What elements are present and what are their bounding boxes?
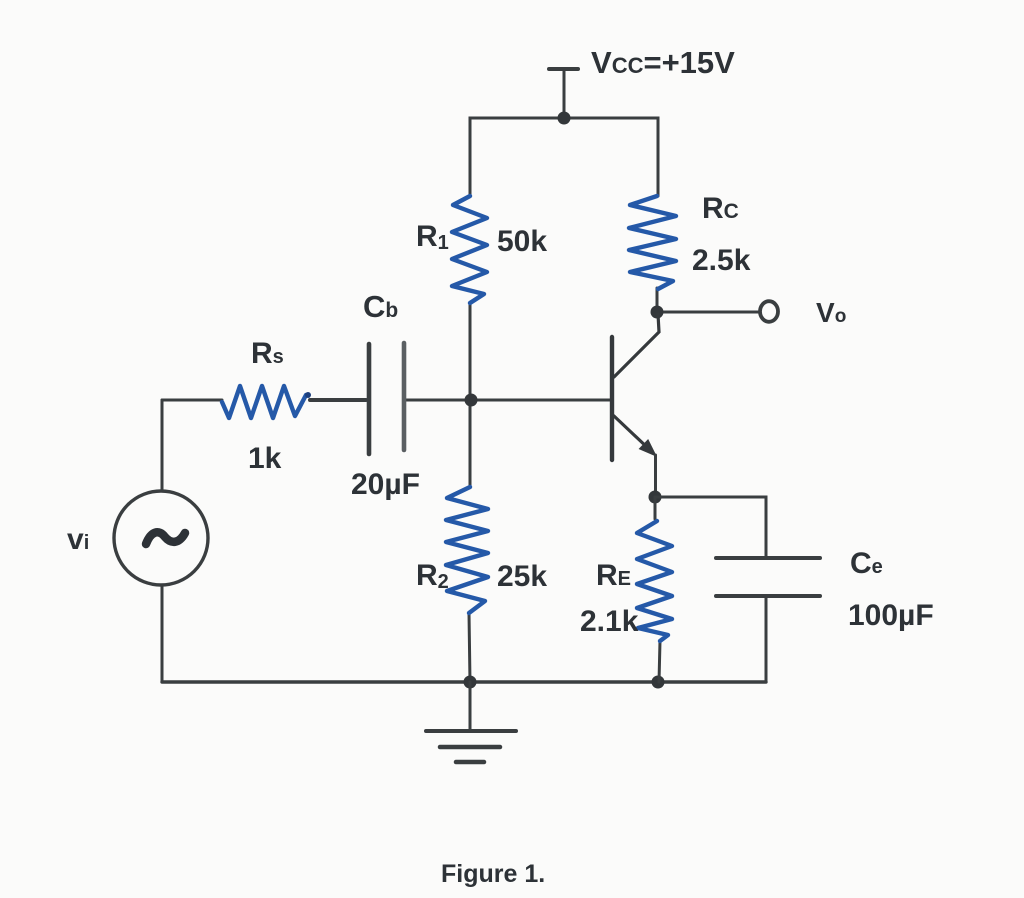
svg-text:vi: vi <box>67 523 89 556</box>
svg-text:2.5k: 2.5k <box>692 244 751 277</box>
svg-text:Ce: Ce <box>850 547 883 580</box>
svg-text:RC: RC <box>702 192 739 225</box>
svg-text:Vo: Vo <box>816 297 846 328</box>
capacitor Cb <box>310 343 404 454</box>
wire collector node to output <box>657 311 760 314</box>
node collector junction <box>651 306 664 319</box>
resistor Rc <box>629 196 676 289</box>
svg-text:100µF: 100µF <box>848 599 934 632</box>
terminal O output <box>760 301 778 322</box>
svg-text:VCC=+15V: VCC=+15V <box>591 45 735 80</box>
wire source left column <box>162 399 222 402</box>
wire R1 bottom to base node <box>469 303 472 400</box>
svg-text:R1: R1 <box>416 220 449 254</box>
node Rs-Cb dot <box>305 392 311 398</box>
wire top rail <box>470 118 658 196</box>
node RE ground junction <box>652 676 665 689</box>
wire emitter node to RE <box>654 497 657 519</box>
source Vi circle <box>114 491 208 585</box>
ground <box>426 682 516 762</box>
svg-text:2.1k: 2.1k <box>580 605 639 638</box>
resistor Rs <box>222 386 306 418</box>
svg-text:1k: 1k <box>248 442 282 475</box>
resistor R1 <box>452 196 487 303</box>
svg-text:50k: 50k <box>497 225 547 258</box>
svg-text:Cb: Cb <box>363 289 398 324</box>
svg-text:R2: R2 <box>416 559 449 593</box>
Vcc power symbol <box>549 69 578 117</box>
svg-text:Figure 1.: Figure 1. <box>441 860 545 888</box>
svg-text:RE: RE <box>596 559 631 592</box>
wire bottom rail <box>162 680 766 683</box>
transistor Q1 <box>612 314 659 460</box>
wire emitter down <box>654 455 657 497</box>
wire RE bottom to rail <box>659 641 660 682</box>
wire R2 bottom to ground rail <box>469 613 470 682</box>
wire base horizontal <box>405 399 610 402</box>
resistor RE <box>637 521 672 641</box>
source Vi tilde <box>146 532 185 544</box>
node R2 ground junction <box>464 676 477 689</box>
wire emitter node to Ce <box>655 497 766 558</box>
node emitter junction <box>649 491 662 504</box>
svg-text:Rs: Rs <box>251 337 284 370</box>
wire base node to R2 top <box>469 400 472 487</box>
svg-text:20µF: 20µF <box>351 468 420 501</box>
resistor R2 <box>446 487 488 613</box>
wire Rc bottom to collector node <box>656 288 659 312</box>
node base junction <box>465 394 478 407</box>
node Vcc junction <box>558 112 571 125</box>
svg-text:25k: 25k <box>497 560 547 593</box>
capacitor Ce <box>716 558 820 682</box>
